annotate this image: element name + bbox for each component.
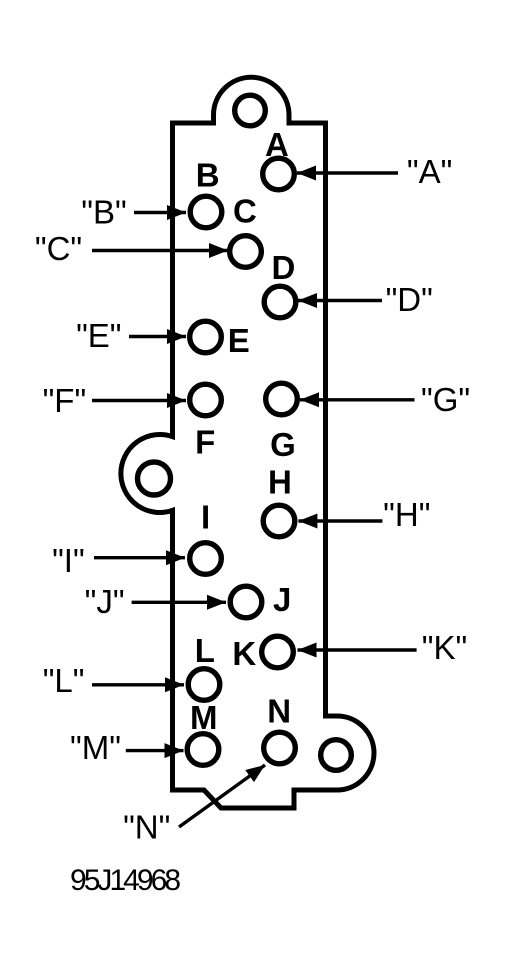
callout "G" arrow — [300, 398, 415, 401]
svg-text:I: I — [201, 499, 210, 536]
svg-text:"A": "A" — [407, 153, 452, 190]
callout "E" arrow — [129, 335, 186, 338]
callout "A" arrow — [297, 171, 398, 174]
pin J — [230, 586, 262, 618]
pin L — [188, 669, 220, 701]
svg-text:"B": "B" — [81, 194, 126, 231]
pin M — [187, 734, 219, 766]
pin E — [190, 321, 222, 353]
callout "L" arrow — [92, 683, 184, 686]
pin B — [190, 196, 222, 228]
callout "J" arrow — [132, 601, 226, 604]
callout "F" arrow — [92, 399, 186, 402]
pin A — [263, 158, 295, 190]
pin D — [264, 286, 296, 318]
callout "C" arrow — [92, 249, 228, 252]
svg-text:"C": "C" — [35, 230, 82, 267]
mounting hole bottom-right — [321, 740, 352, 771]
svg-text:G: G — [270, 426, 296, 463]
svg-text:E: E — [228, 322, 250, 359]
svg-text:C: C — [233, 193, 257, 230]
pin C — [230, 236, 262, 268]
svg-text:"N": "N" — [123, 809, 170, 846]
svg-text:"H": "H" — [383, 496, 430, 533]
svg-text:"F": "F" — [43, 382, 87, 419]
svg-text:L: L — [195, 632, 215, 669]
pin N — [264, 732, 296, 764]
callout "I" arrow — [94, 556, 185, 559]
pin F — [190, 384, 222, 416]
svg-text:"K": "K" — [422, 629, 467, 666]
svg-text:"L": "L" — [43, 662, 85, 699]
callout "H" arrow — [298, 519, 382, 522]
svg-text:"G": "G" — [421, 381, 470, 418]
pin K — [262, 636, 294, 668]
mounting hole left — [138, 462, 171, 495]
pin G — [266, 383, 298, 415]
connector body outline — [121, 77, 374, 808]
pin H — [263, 505, 295, 537]
callout "D" arrow — [298, 299, 382, 302]
svg-text:N: N — [267, 693, 291, 730]
callout "N" arrow — [179, 765, 265, 827]
svg-text:D: D — [271, 249, 295, 286]
svg-text:H: H — [268, 464, 292, 501]
callout "B" arrow — [134, 211, 186, 214]
svg-text:K: K — [232, 635, 256, 672]
callout "K" arrow — [298, 648, 417, 651]
svg-text:A: A — [265, 126, 289, 163]
svg-text:J: J — [273, 581, 291, 618]
pin I — [190, 543, 222, 575]
svg-text:"I": "I" — [52, 542, 85, 579]
mounting hole top — [235, 95, 266, 126]
callout "M" arrow — [126, 749, 184, 752]
svg-text:"E": "E" — [76, 317, 121, 354]
svg-text:"J": "J" — [85, 583, 125, 620]
svg-text:"D": "D" — [386, 281, 433, 318]
svg-text:F: F — [195, 424, 215, 461]
svg-text:95J14968: 95J14968 — [70, 864, 181, 897]
svg-text:B: B — [196, 156, 220, 193]
svg-text:"M": "M" — [70, 729, 121, 766]
svg-text:M: M — [190, 699, 218, 736]
